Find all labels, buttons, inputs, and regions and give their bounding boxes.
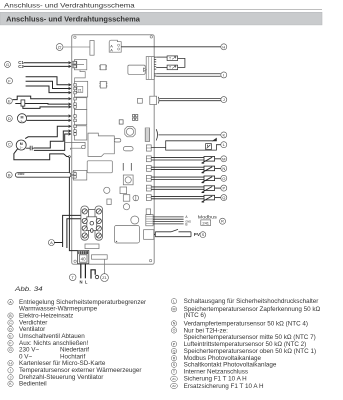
main circuit board outline xyxy=(72,35,155,265)
wire to Z1 xyxy=(104,259,106,273)
jumper pins xyxy=(123,163,131,171)
NTC sensor P xyxy=(204,186,215,191)
wire C 3 xyxy=(34,134,71,150)
fuse housing top bar xyxy=(78,251,88,254)
mounting pad xyxy=(123,175,133,185)
screw terminals xyxy=(82,209,87,214)
L connector xyxy=(146,145,151,151)
wire I pair xyxy=(156,74,221,77)
svg-text:K: K xyxy=(9,382,12,386)
node Q circle xyxy=(221,195,227,201)
svg-text:S: S xyxy=(202,232,205,237)
trace meander under heatsink xyxy=(65,142,85,149)
wire A 2 xyxy=(67,219,81,248)
wire F 3 xyxy=(26,86,71,93)
small part xyxy=(104,187,110,193)
small rect part xyxy=(107,199,111,205)
connector block F xyxy=(74,81,87,97)
pressure switch symbol L xyxy=(206,144,212,150)
terminal block middle xyxy=(87,217,97,231)
svg-text:Q: Q xyxy=(222,195,225,200)
svg-text:C: C xyxy=(8,142,11,147)
screw hole top-right xyxy=(150,36,152,38)
svg-text:Elektro-Heizeinsatz: Elektro-Heizeinsatz xyxy=(19,313,73,320)
section title bar xyxy=(0,12,322,25)
svg-text:(NTC 6): (NTC 6) xyxy=(184,312,206,319)
svg-text:J: J xyxy=(10,376,12,380)
heatsink xyxy=(88,133,114,156)
connector block D xyxy=(74,110,86,125)
svg-text:A: A xyxy=(9,300,12,304)
gland circles B xyxy=(18,173,20,175)
node K circle xyxy=(221,132,227,138)
wire C 1 xyxy=(25,126,71,138)
svg-text:Interner Netzanschluss: Interner Netzanschluss xyxy=(184,369,248,376)
node M circle xyxy=(221,156,227,162)
svg-text:Kartenleser für Micro-SD-Karte: Kartenleser für Micro-SD-Karte xyxy=(19,360,106,367)
NTC sensor N xyxy=(204,166,215,171)
svg-text:1~: 1~ xyxy=(20,119,24,123)
svg-text:E: E xyxy=(8,98,11,103)
svg-text:40: 40 xyxy=(81,256,86,261)
node H circle xyxy=(221,44,227,50)
node E circle xyxy=(6,98,12,104)
sensor connector assembly xyxy=(146,57,154,80)
svg-text:K: K xyxy=(222,132,225,137)
heating element B body xyxy=(15,173,71,178)
svg-text:T: T xyxy=(169,66,171,70)
svg-text:Schaltausgang für Sicherheitsh: Schaltausgang für Sicherheitshochdrucksc… xyxy=(184,298,319,305)
wire J pair xyxy=(159,99,220,101)
svg-text:N: N xyxy=(173,322,176,326)
screw hole bottom-right xyxy=(149,259,151,261)
crystal xyxy=(133,195,139,201)
wire G C1 xyxy=(24,62,71,64)
svg-text:Z1: Z1 xyxy=(172,377,176,381)
svg-text:230 V~Niedertarif: 230 V~Niedertarif xyxy=(19,347,89,354)
svg-text:241: 241 xyxy=(202,221,209,226)
wire C 2 xyxy=(34,131,71,148)
svg-text:Temperatursensor externer Wärm: Temperatursensor externer Wärmeerzeuger xyxy=(19,367,142,374)
svg-text:Z1: Z1 xyxy=(102,276,106,280)
block lower plate xyxy=(85,244,99,249)
sensor row P wires xyxy=(151,187,204,189)
IC U1 xyxy=(100,65,106,70)
fuse label plate xyxy=(92,255,108,259)
connector block E xyxy=(74,98,86,110)
svg-text:T: T xyxy=(71,275,74,280)
small cap1 xyxy=(120,187,127,194)
svg-text:N: N xyxy=(222,166,225,171)
big relay K2 xyxy=(114,226,139,244)
svg-text:Umschaltventil Abtauen: Umschaltventil Abtauen xyxy=(19,333,85,340)
svg-text:Bedienteil: Bedienteil xyxy=(19,381,47,388)
svg-text:Anschluss- und Verdrahtungssch: Anschluss- und Verdrahtungsschema xyxy=(4,2,135,9)
svg-text:O: O xyxy=(173,329,176,333)
switching output L box xyxy=(151,141,213,148)
IC U2 xyxy=(100,81,106,88)
solenoid coil E xyxy=(21,100,25,106)
svg-text:Sicherung F1 T 10 A H: Sicherung F1 T 10 A H xyxy=(184,376,248,383)
M connector xyxy=(146,156,151,162)
svg-text:M: M xyxy=(173,308,176,312)
node O circle xyxy=(221,175,227,181)
wire G C2 xyxy=(24,65,71,67)
N connector xyxy=(146,166,151,172)
svg-text:G: G xyxy=(6,62,9,67)
sensor T1 xyxy=(167,56,178,61)
pill P1 xyxy=(123,147,133,151)
svg-text:Z2: Z2 xyxy=(58,45,62,49)
header rule xyxy=(0,8,322,10)
svg-text:F: F xyxy=(8,78,11,83)
svg-text:N: N xyxy=(79,280,82,285)
svg-text:E: E xyxy=(9,335,12,339)
svg-text:L: L xyxy=(85,280,88,285)
small cap3 xyxy=(119,120,123,124)
node B circle xyxy=(6,172,12,178)
connector pins right xyxy=(154,57,156,76)
pad circle xyxy=(123,204,129,210)
fuse housing xyxy=(78,250,89,263)
svg-text:Modbus: Modbus xyxy=(198,214,218,220)
wire vertical to mains xyxy=(69,158,78,251)
svg-text:D: D xyxy=(9,327,12,331)
svg-text:A: A xyxy=(50,240,53,245)
svg-text:Speichertemperatursensor mitte: Speichertemperatursensor mitte 50 kΩ (NT… xyxy=(184,334,316,341)
wire A 1 xyxy=(63,215,82,247)
O connector xyxy=(146,175,151,181)
node R circle xyxy=(220,218,226,224)
temp sensor loop 1 xyxy=(156,56,167,58)
spare fuse Z2 holder xyxy=(90,41,94,56)
NTC sensor rows M N O P Q xyxy=(151,157,221,203)
node J circle xyxy=(221,97,227,103)
capacitor C xyxy=(26,146,34,151)
wire L xyxy=(84,264,86,279)
terminal block body left lobe xyxy=(81,206,89,240)
node P circle xyxy=(221,185,227,191)
svg-text:A: A xyxy=(110,49,113,53)
connector block G xyxy=(74,60,86,70)
sensor row N wires xyxy=(151,167,204,169)
modbus address box xyxy=(201,220,211,226)
fuse inner box xyxy=(79,255,87,262)
motor C xyxy=(16,140,26,150)
heatsink pill xyxy=(114,139,121,142)
node C circle xyxy=(6,141,12,147)
svg-text:O: O xyxy=(222,176,225,181)
connector pin pads xyxy=(74,61,77,178)
svg-text:21: 21 xyxy=(78,88,82,92)
wire K xyxy=(159,134,221,136)
bracket K xyxy=(156,129,157,140)
label 21 box xyxy=(77,86,83,92)
svg-text:L: L xyxy=(223,142,226,147)
Q connector xyxy=(146,195,151,201)
pin marks D xyxy=(69,115,71,122)
svg-text:B: B xyxy=(9,314,12,318)
svg-text:Abb. 34: Abb. 34 xyxy=(14,286,43,293)
flag L xyxy=(213,138,217,140)
relay K1 xyxy=(87,161,112,173)
pin marks G xyxy=(69,61,71,67)
node G circle xyxy=(5,61,11,67)
svg-text:J: J xyxy=(223,97,225,102)
svg-text:Warmwasser-Wärmepumpe: Warmwasser-Wärmepumpe xyxy=(19,306,98,313)
screw hole top-left xyxy=(74,36,76,38)
junction node xyxy=(69,156,71,158)
node S circle xyxy=(200,232,206,238)
PV connector xyxy=(144,230,154,240)
svg-text:Ventilator: Ventilator xyxy=(19,326,45,333)
svg-text:P: P xyxy=(173,342,176,346)
dot cluster xyxy=(133,115,138,121)
driver module xyxy=(128,65,145,74)
svg-text:R: R xyxy=(173,357,176,361)
svg-text:Z2: Z2 xyxy=(172,384,176,388)
wire A lead xyxy=(54,242,62,244)
motor D xyxy=(17,114,26,123)
sensor row M wires xyxy=(151,158,204,160)
svg-text:M: M xyxy=(222,156,225,161)
bracket J xyxy=(157,97,160,104)
sensor T2 xyxy=(167,65,178,70)
wire Z2 to fuse xyxy=(63,46,90,48)
svg-text:C: C xyxy=(9,321,12,325)
svg-text:A: A xyxy=(185,215,188,219)
pin marks C xyxy=(69,125,71,135)
node L circle xyxy=(221,142,227,148)
wire N xyxy=(80,264,82,279)
svg-text:I: I xyxy=(10,369,11,373)
svg-text:1~: 1~ xyxy=(20,146,24,150)
svg-text:L: L xyxy=(173,300,175,304)
wire D 2 xyxy=(27,119,71,121)
display connector K hatched xyxy=(145,128,149,141)
sensor row O wires xyxy=(151,177,204,179)
svg-text:Speichertemperatursensor oben: Speichertemperatursensor oben 50 kΩ (NTC… xyxy=(184,348,316,355)
pin marks E xyxy=(69,97,71,108)
svg-text:C2: C2 xyxy=(18,64,24,69)
node F circle xyxy=(7,78,13,84)
svg-text:Verdampfertemperatursensor 50: Verdampfertemperatursensor 50 kΩ (NTC 4) xyxy=(184,320,308,327)
svg-text:Q: Q xyxy=(173,349,176,353)
wire E top xyxy=(12,96,70,100)
wire F 2 xyxy=(26,81,71,88)
small cap2 xyxy=(123,195,130,202)
octagon pad xyxy=(125,127,135,137)
sensor row Q wires xyxy=(151,196,204,198)
connector block B xyxy=(73,170,86,180)
wire E bottom xyxy=(23,106,71,108)
svg-text:I: I xyxy=(223,72,224,77)
wire D 1 xyxy=(27,115,71,117)
modbus wires xyxy=(153,217,184,224)
wire F 1 xyxy=(26,77,71,85)
micro-SD card reader xyxy=(109,40,121,52)
wire E mid xyxy=(15,103,71,106)
buzzer circle xyxy=(131,216,139,224)
svg-text:H: H xyxy=(222,44,225,49)
svg-text:R: R xyxy=(221,219,224,224)
svg-text:B: B xyxy=(8,172,11,177)
node D circle xyxy=(6,115,12,121)
node Z1 circle xyxy=(101,274,109,282)
edge part xyxy=(146,209,150,215)
node A circle xyxy=(48,240,54,246)
screw hole bottom-left xyxy=(74,260,76,262)
svg-text:B: B xyxy=(185,223,187,227)
svg-text:T: T xyxy=(173,370,176,374)
modbus connector hatched xyxy=(146,215,153,226)
small part near J xyxy=(138,98,143,103)
NTC sensor M xyxy=(204,157,215,162)
wire SD to H xyxy=(121,46,221,48)
svg-text:Anschluss- und Verdrahtungssch: Anschluss- und Verdrahtungsschema xyxy=(6,17,140,24)
node Z2 circle xyxy=(56,44,63,51)
P connector xyxy=(146,185,151,191)
svg-text:Schaltkontakt Photovoltaikanla: Schaltkontakt Photovoltaikanlage xyxy=(184,362,277,369)
node I circle xyxy=(221,72,227,78)
meander trace G to F xyxy=(75,70,86,82)
pe hook xyxy=(91,270,95,279)
svg-text:D: D xyxy=(8,116,11,121)
wire C bottom loop xyxy=(14,149,69,160)
node N circle xyxy=(221,165,227,171)
pin marks F xyxy=(69,84,71,94)
PV cable with switch xyxy=(155,229,191,236)
svg-text:H: H xyxy=(9,362,12,366)
svg-text:G: G xyxy=(9,348,12,352)
node T circle xyxy=(69,274,76,281)
svg-text:Lufteintrittstemperatursensor: Lufteintrittstemperatursensor 50 kΩ (NTC… xyxy=(184,341,307,348)
svg-text:F: F xyxy=(9,342,12,346)
svg-text:S: S xyxy=(173,363,176,367)
NTC sensor Q xyxy=(204,195,215,200)
terminal block body right lobe xyxy=(95,206,103,240)
NTC sensor O xyxy=(204,176,215,181)
svg-text:T: T xyxy=(169,57,171,61)
wire entry pins left edge xyxy=(69,61,71,135)
svg-text:Ersatzsicherung F1 T 10 A H: Ersatzsicherung F1 T 10 A H xyxy=(184,383,264,390)
connector block C xyxy=(74,126,86,140)
J connector xyxy=(150,96,157,104)
svg-text:P: P xyxy=(222,186,225,191)
